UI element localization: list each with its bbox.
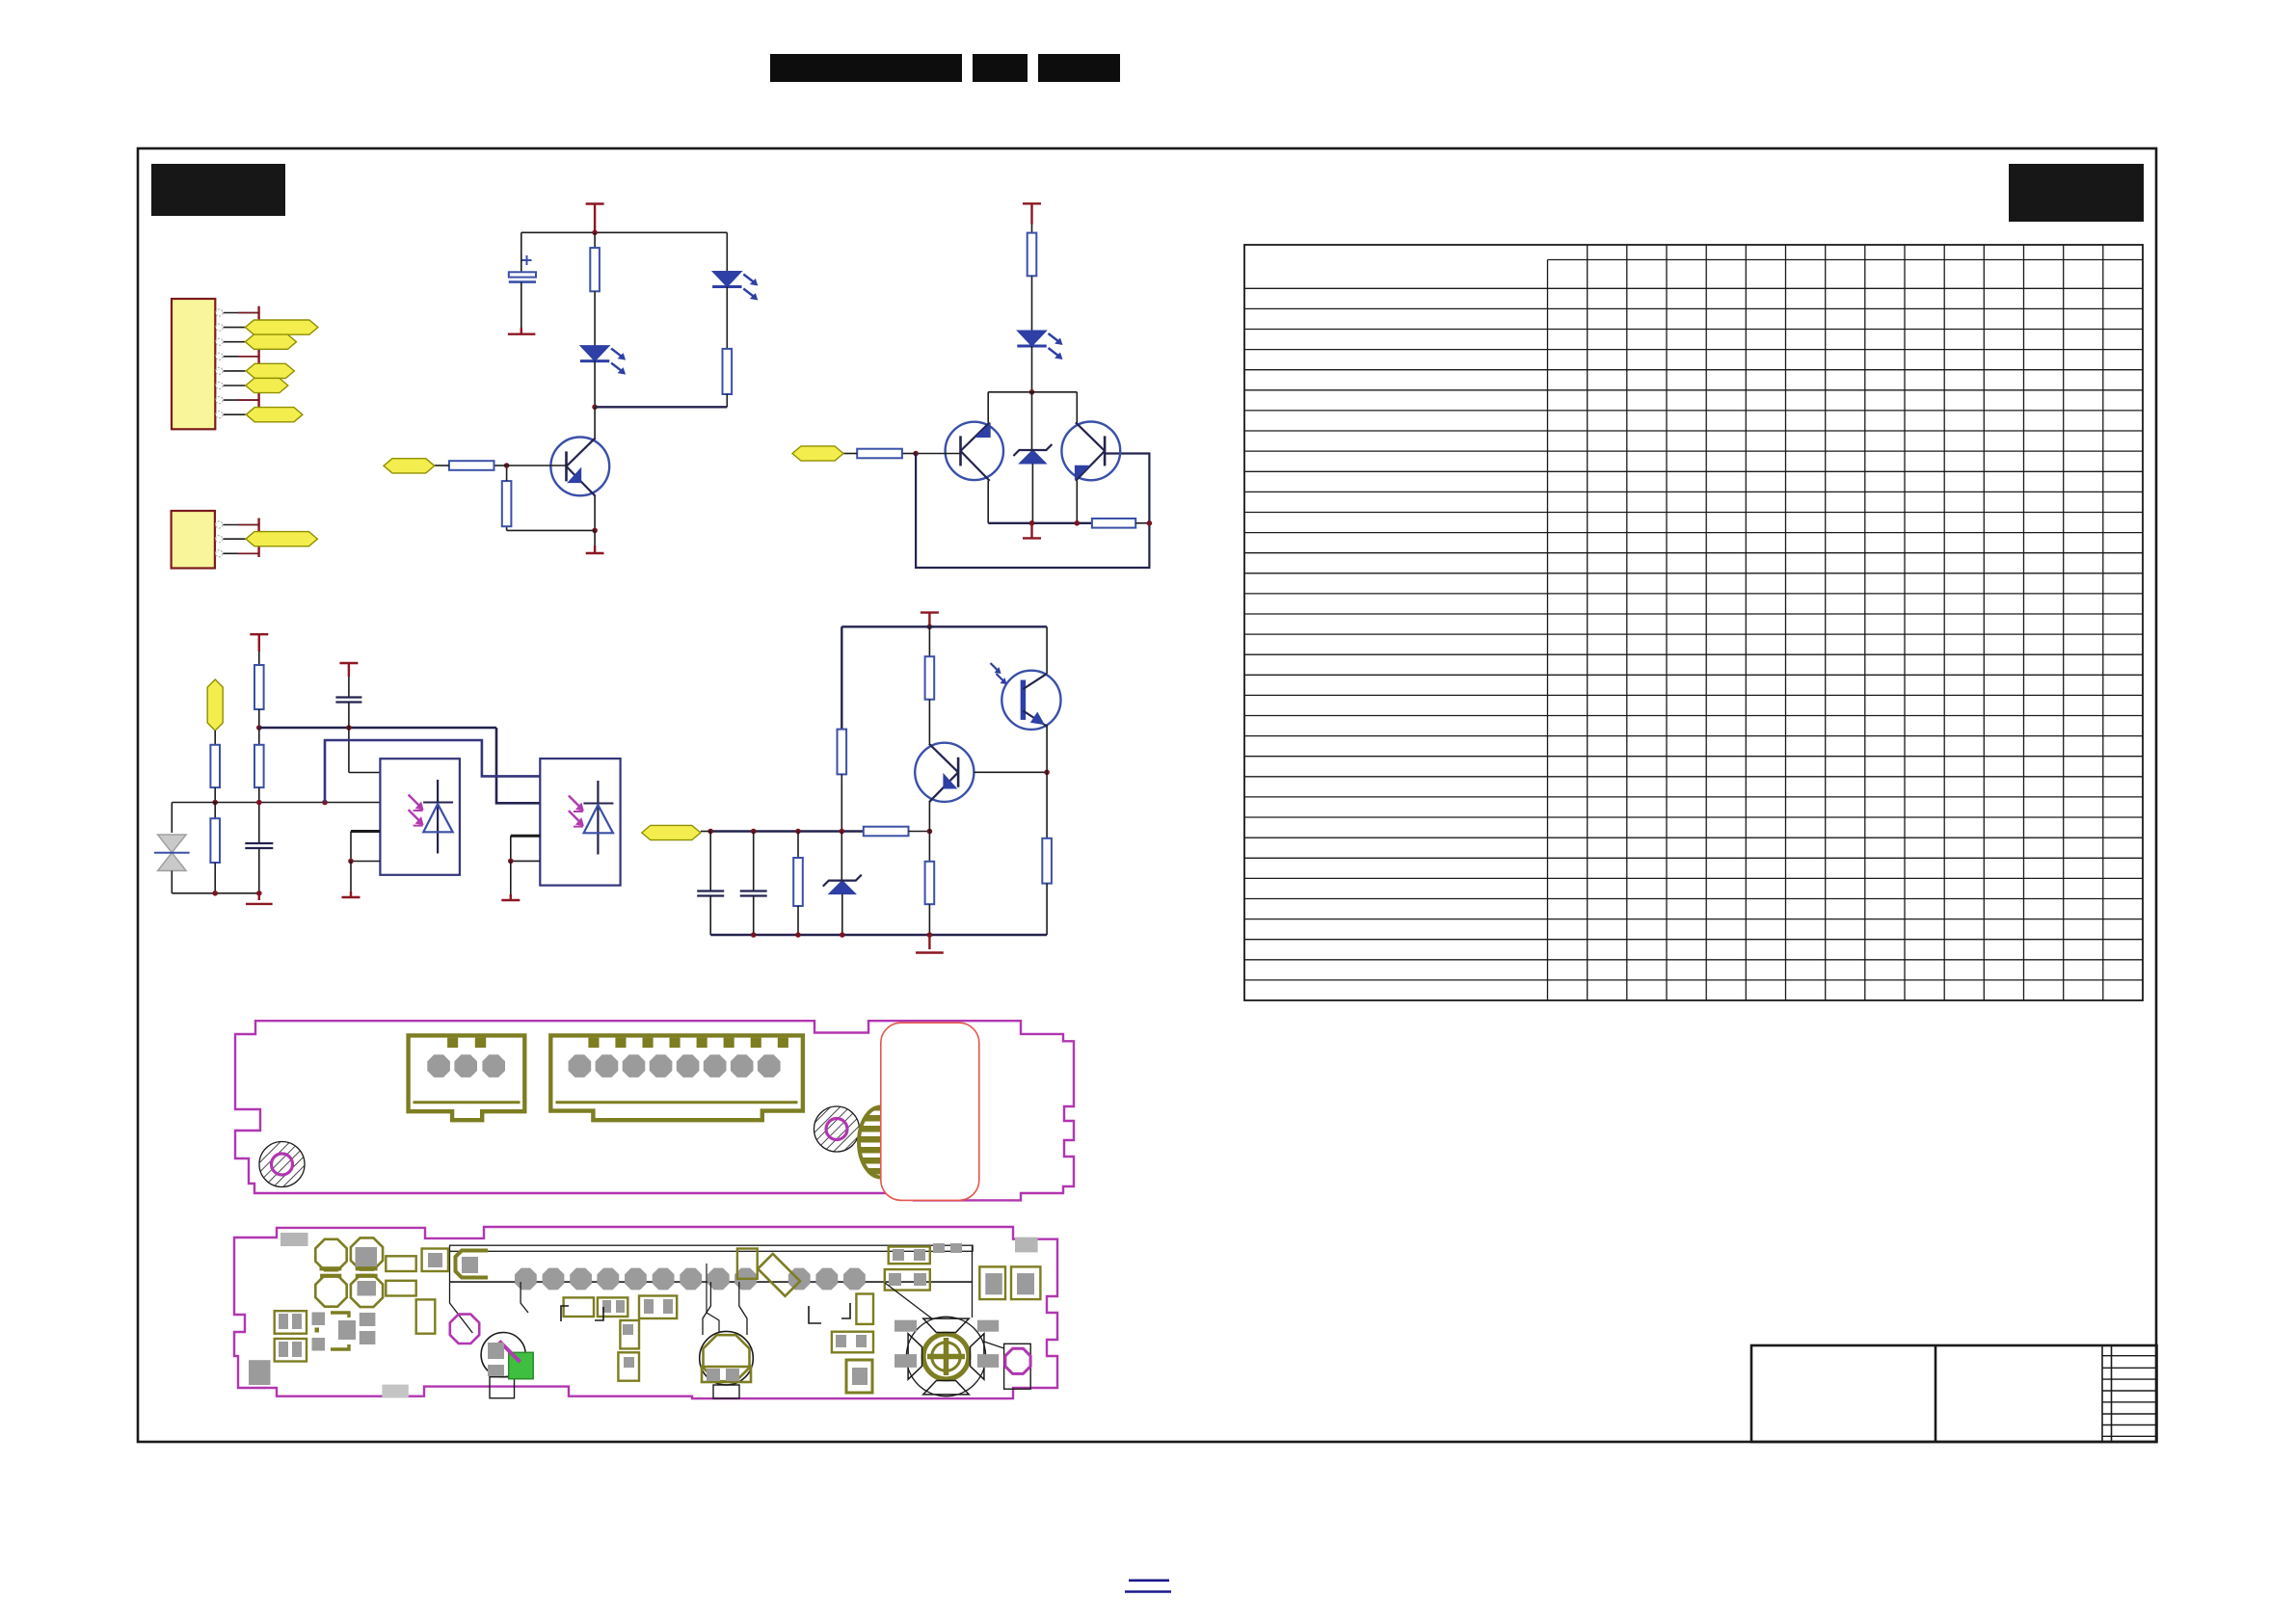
wire flag to R4 <box>435 465 449 466</box>
LED D2 <box>712 272 741 287</box>
node: circuit1 top <box>592 230 598 236</box>
zener ZD2 <box>841 832 842 881</box>
opto box U2 <box>540 758 620 886</box>
bottom rail circuit4 <box>710 934 1047 936</box>
net flag CN1 pin5 <box>246 363 294 378</box>
node circuit4 top <box>927 625 933 630</box>
wire: navy bus to U2 pin2 <box>496 728 540 803</box>
capacitor C4 <box>335 696 361 698</box>
power T (C1 bottom, red) <box>521 328 522 334</box>
wire diac to bottom rail <box>171 871 173 893</box>
resistor R13 (center chain) <box>928 626 930 656</box>
PCB2 magenta octagon right <box>1004 1344 1031 1389</box>
U2 ground pins <box>511 835 541 838</box>
PCB1 IR window (red) <box>881 1023 979 1200</box>
PCB2 diagonal component <box>758 1254 800 1296</box>
transistor T1 <box>946 422 1003 480</box>
net flag (circuit4 input) <box>642 825 701 839</box>
LED D3 <box>1017 331 1046 346</box>
transistor Q3 (photo) <box>1046 626 1048 674</box>
node: T1 base <box>913 451 919 457</box>
photodiode U1 <box>437 780 439 854</box>
wire flag to R6 <box>843 453 857 455</box>
PCB2 pad row <box>515 1268 537 1290</box>
net flag CN1 pin6 <box>246 378 288 392</box>
black label box top-left <box>151 164 285 216</box>
power T (circuit4 bottom) <box>928 935 930 949</box>
node: circuit2 center top <box>1029 389 1035 395</box>
PCB1 mounting hole 2 (hatched) <box>814 1106 860 1152</box>
net flag (mid input, vertical) <box>207 679 223 731</box>
net flag CN1 pin8 <box>246 408 303 422</box>
net flag CN1 pin3 <box>245 334 296 349</box>
PCB2 middle TH part (black circle) <box>700 1331 754 1385</box>
wire R5 to LED D3 <box>1031 276 1033 331</box>
PCB2 inductor lower-left of rotary <box>846 1360 872 1393</box>
capacitor C3 <box>258 787 260 843</box>
wire Q2 base out <box>974 771 1047 773</box>
wire R2 to junction <box>726 394 728 407</box>
wire: outer loop left/bottom <box>916 454 1149 569</box>
resistor R7 <box>1092 519 1135 528</box>
bottom rail mid circuit <box>172 892 258 894</box>
CN1 power bus (red) <box>257 306 259 409</box>
wire T1 bottom <box>987 481 989 523</box>
wire R13 to Q2 <box>928 700 930 744</box>
photodiode U2 <box>597 781 599 855</box>
power T (circuit1 bottom) <box>594 530 596 545</box>
PCB2 connector body (thin black) <box>450 1245 974 1251</box>
zener ZD1 <box>1031 392 1033 450</box>
capacitor C1 (polarized) <box>509 272 536 277</box>
node: D1/R2 junction <box>592 405 598 411</box>
wire R3 top to base node <box>506 466 508 481</box>
wire to capacitor C1 <box>521 232 522 272</box>
resistor R1 <box>594 232 596 248</box>
PCB2 shield outline left (thin black) <box>450 1282 473 1333</box>
PCB2 connector bracket (olive) <box>456 1251 489 1278</box>
node: cap branch <box>346 725 352 731</box>
connector CN2 body <box>172 511 215 569</box>
black label box top-right <box>2009 164 2144 222</box>
wire: mid bus to opto U1 pin2 <box>172 802 380 804</box>
net flag (circuit2 input) <box>792 446 843 461</box>
CN2 pin wires <box>223 524 258 526</box>
top rail circuit4 <box>841 625 1047 627</box>
PCB1 connector CN1 footprint <box>409 1035 525 1120</box>
power T (mid bottom) <box>258 893 260 900</box>
resistor R17 <box>797 832 799 859</box>
PCB1 board outline <box>235 1021 1074 1200</box>
resistor R9 <box>258 728 260 745</box>
resistor R2 <box>723 349 733 394</box>
wire: collector Q1 <box>594 407 596 438</box>
wire Q3 emitter <box>1046 725 1048 838</box>
footer mark <box>1129 1580 1169 1583</box>
wire base <box>507 465 567 466</box>
resistor R12 <box>838 730 847 775</box>
wire Q2 emitter down <box>928 802 930 862</box>
wire C1 bottom <box>521 282 522 328</box>
wire T1 collector riser <box>987 392 989 423</box>
PCB2 gray pad details <box>428 1253 442 1267</box>
wire T2 collector <box>1076 392 1078 423</box>
PCB2 board outline <box>234 1227 1057 1398</box>
CN2 pin circles <box>216 521 223 528</box>
net flag (circuit1 input) <box>384 459 435 473</box>
node Q2 base / Q3 emitter <box>1044 770 1050 776</box>
node: divider mid <box>212 800 218 806</box>
PCB2 small SMD components (olive outline / gray pads) <box>386 1256 415 1271</box>
resistor R11 <box>214 803 216 819</box>
resistor R16 <box>925 862 935 904</box>
resistor R8 <box>254 665 264 709</box>
wire R1 to LED D1 <box>594 291 596 345</box>
transistor T2 <box>1061 422 1120 481</box>
wire: emitter Q1 <box>594 496 596 530</box>
title bar 3 (redacted) <box>1038 54 1120 82</box>
power T (U1 ground) <box>350 862 352 892</box>
wire D2 to R2 <box>726 287 728 349</box>
node: base divider <box>504 463 510 468</box>
wire D1 to node <box>594 360 596 407</box>
power T (U2 ground) <box>510 861 512 894</box>
diac/TVS DB1 (gray) <box>158 835 187 853</box>
wire: upper rail circuit2 <box>988 391 1077 393</box>
power T (circuit2 bottom) <box>1030 523 1032 533</box>
PCB2 electrolytic capacitors (olive octagons) <box>315 1239 346 1270</box>
options table grid <box>1244 245 2143 1000</box>
wire: mid horizontal rail <box>259 727 496 729</box>
PCB1 IR lens (olive striped semicircle) <box>859 1107 903 1178</box>
LED D1 <box>580 346 609 361</box>
Q3 light arrows <box>991 663 1001 673</box>
power T (cap branch top) <box>339 662 358 664</box>
wire D3 to node <box>1031 346 1033 392</box>
wire T2 emitter <box>1076 481 1078 523</box>
transistor Q2 <box>915 743 974 802</box>
wire: junction rail <box>595 406 727 408</box>
PCB2 right rotary part <box>906 1317 985 1396</box>
power T (mid left chain) <box>250 633 268 635</box>
wire: right branch top <box>726 232 728 271</box>
PCB2 corner pads (gray) <box>280 1233 308 1246</box>
net flag CN2 pin2 <box>246 532 317 546</box>
node: mid supply <box>256 725 262 731</box>
title bar 2 (redacted) <box>973 54 1028 82</box>
resistor R14 <box>1042 838 1052 884</box>
wire T1 base <box>916 453 960 455</box>
CN1 pin circles <box>216 309 223 316</box>
PCB2 shield outline middle (thin black) <box>703 1282 710 1335</box>
connector CN1 body <box>172 299 215 429</box>
resistor R4 <box>494 465 507 466</box>
capacitor C6 <box>753 832 755 891</box>
PCB2 L-brackets <box>809 1306 821 1323</box>
PCB2 small olive rect row (lower-left cluster) <box>331 1313 349 1317</box>
resistor R15 (emitter) <box>864 827 909 837</box>
transistor Q1 <box>550 438 609 496</box>
opto box U1 <box>380 758 460 875</box>
wire: circuit1 top rail <box>521 231 728 233</box>
CN1 pin wires <box>224 312 259 314</box>
PCB2 IR receiver (black circle + green LED) <box>481 1333 525 1377</box>
wire left branch down <box>171 803 173 834</box>
CN2 pads <box>569 1054 592 1078</box>
net flag CN1 pin2 <box>245 320 318 334</box>
resistor R10 <box>210 745 220 787</box>
left vertical circuit4 <box>841 626 842 729</box>
capacitor C5 <box>709 832 711 891</box>
power T (circuit 2 top) <box>1023 202 1041 204</box>
resistor R6 <box>902 453 916 455</box>
U1 ground pins <box>351 830 380 833</box>
title block <box>1751 1345 2157 1442</box>
wire: navy link mid bus to U2 pin1 <box>325 740 540 803</box>
wire cap node to opto U1 pin1 <box>348 728 350 773</box>
CN1 pads <box>427 1054 450 1078</box>
node: emitter junction <box>592 528 598 534</box>
resistor R3 <box>502 481 512 526</box>
mid rail circuit4 <box>710 830 864 832</box>
wire T to R5 <box>1031 225 1033 233</box>
power T (circuit 1 top) <box>586 202 604 204</box>
wire emitter to R3 <box>507 529 596 531</box>
node Q2 emitter <box>927 829 933 835</box>
power T (circuit4 top) <box>921 611 939 613</box>
wire flag to R10 <box>214 731 216 745</box>
title bar 1 (redacted) <box>770 54 962 82</box>
CN2 power bus (red) <box>257 519 259 558</box>
bottom rail circuit2 <box>988 522 1092 524</box>
PCB2 magenta octagon left <box>450 1315 479 1344</box>
resistor R5 <box>1028 233 1037 277</box>
PCB1 connector CN2 footprint <box>550 1035 803 1120</box>
